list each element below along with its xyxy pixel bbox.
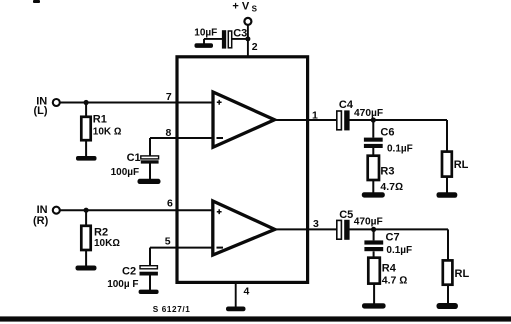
capacitor C4 plates bbox=[337, 110, 350, 130]
svg-text:4.7Ω: 4.7Ω bbox=[380, 181, 403, 193]
ground for C2 bbox=[139, 290, 159, 294]
svg-text:3: 3 bbox=[313, 218, 319, 230]
svg-text:+ V: + V bbox=[232, 0, 249, 12]
wire R1 lower stem bbox=[85, 140, 87, 157]
wire pin4 to ground bbox=[235, 282, 237, 307]
bottom border rule bbox=[0, 316, 511, 321]
wire pin6: IN(R) to + input bbox=[60, 209, 212, 211]
wire R4 lower stem bbox=[373, 284, 375, 304]
op-amp A2 plus sign bbox=[217, 209, 222, 214]
svg-text:C3: C3 bbox=[233, 27, 247, 39]
wire pin8: C1 to - input bbox=[150, 137, 212, 139]
wire pin5: C2 to - input bbox=[150, 247, 212, 249]
svg-text:10K Ω: 10K Ω bbox=[93, 126, 122, 137]
wire R2 upper stem bbox=[85, 210, 87, 226]
wire C6 to R3 stem bbox=[372, 148, 374, 156]
junction node C6 bbox=[371, 117, 376, 122]
wire R2 lower stem bbox=[85, 250, 87, 266]
svg-text:C2: C2 bbox=[122, 266, 136, 278]
svg-text:R2: R2 bbox=[94, 227, 108, 239]
svg-text:S: S bbox=[252, 5, 258, 14]
ground for R2 bbox=[76, 266, 97, 271]
junction node at R2 bbox=[84, 208, 89, 213]
svg-text:470µF: 470µF bbox=[354, 217, 383, 228]
wire R3 lower stem bbox=[372, 180, 374, 193]
svg-text:C1: C1 bbox=[127, 152, 141, 164]
svg-text:7: 7 bbox=[166, 91, 172, 103]
svg-text:(R): (R) bbox=[33, 215, 49, 227]
svg-text:8: 8 bbox=[166, 127, 172, 139]
capacitor C6 plates bbox=[364, 138, 383, 148]
resistor RL1 body bbox=[442, 152, 452, 177]
capacitor C5 plates bbox=[337, 220, 350, 240]
wire RL2 upper stem bbox=[447, 229, 449, 260]
resistor R1 body bbox=[81, 117, 90, 140]
svg-text:10KΩ: 10KΩ bbox=[94, 238, 120, 249]
ground for C3 bbox=[195, 43, 214, 48]
wire C2 lower stem bbox=[149, 275, 151, 290]
wire C3 to pin2 node bbox=[232, 38, 248, 40]
svg-text:0.1µF: 0.1µF bbox=[387, 144, 413, 155]
svg-text:100µ F: 100µ F bbox=[107, 279, 138, 290]
wire C3 left to ground bbox=[204, 39, 222, 44]
wire RL1 upper stem bbox=[446, 120, 448, 152]
svg-text:2: 2 bbox=[252, 41, 258, 53]
wire C7 upper stem bbox=[373, 229, 375, 240]
resistor RL2 body bbox=[443, 260, 453, 284]
resistor R2 body bbox=[81, 226, 90, 250]
svg-text:10µF: 10µF bbox=[194, 28, 217, 39]
svg-text:4.7 Ω: 4.7 Ω bbox=[382, 274, 408, 286]
wire C1 lower stem bbox=[149, 163, 151, 179]
op-amp A2 minus sign bbox=[217, 247, 224, 249]
terminal IN(L) bbox=[53, 99, 60, 106]
wire +Vs stem to pin2 bbox=[247, 25, 249, 56]
junction node at R1 bbox=[84, 100, 89, 105]
ground for pin4 bbox=[226, 307, 246, 312]
svg-text:C4: C4 bbox=[339, 99, 354, 111]
op-amp A2 (bottom) bbox=[213, 201, 275, 255]
op-amp A1 minus sign bbox=[217, 137, 224, 139]
svg-text:C6: C6 bbox=[380, 126, 394, 138]
wire node2: C5 to RL2 branch bbox=[349, 228, 448, 230]
svg-text:R4: R4 bbox=[382, 263, 397, 275]
wire R1 upper stem bbox=[85, 103, 87, 117]
svg-text:C7: C7 bbox=[386, 232, 400, 244]
svg-text:470µF: 470µF bbox=[354, 108, 383, 119]
capacitor C7 plates bbox=[364, 240, 383, 251]
wire C7 to R4 stem bbox=[373, 251, 375, 257]
svg-text:6: 6 bbox=[167, 197, 173, 209]
capacitor C1 plates bbox=[141, 156, 159, 164]
svg-text:R3: R3 bbox=[380, 166, 394, 178]
wire pin1 output to C4 bbox=[275, 119, 337, 121]
ground for R3 bbox=[362, 192, 385, 197]
capacitor C3 plates bbox=[222, 30, 232, 48]
wire C1 upper stem bbox=[149, 138, 151, 156]
svg-text:100µF: 100µF bbox=[111, 167, 140, 178]
terminal +Vs bbox=[244, 18, 251, 25]
ground for R1 bbox=[76, 156, 97, 161]
svg-text:C5: C5 bbox=[339, 209, 353, 221]
op-amp A1 (top) bbox=[213, 92, 275, 147]
svg-text:R1: R1 bbox=[93, 113, 107, 125]
ground for RL1 bbox=[437, 192, 458, 198]
ground for RL2 bbox=[437, 303, 458, 309]
svg-text:0.1µF: 0.1µF bbox=[386, 245, 412, 256]
ground for R4 bbox=[362, 303, 386, 308]
wire RL1 lower stem bbox=[446, 177, 448, 193]
wire RL2 lower stem bbox=[447, 285, 449, 304]
svg-text:(L): (L) bbox=[34, 105, 48, 117]
stray corner mark bbox=[33, 0, 40, 3]
resistor R4 body bbox=[368, 258, 380, 284]
svg-text:RL: RL bbox=[454, 159, 469, 171]
svg-text:5: 5 bbox=[165, 236, 171, 248]
junction node C7 bbox=[371, 227, 376, 232]
capacitor C2 plates bbox=[140, 266, 158, 276]
svg-text:1: 1 bbox=[312, 110, 318, 122]
IC outline U1 bbox=[177, 57, 308, 283]
svg-text:4: 4 bbox=[244, 286, 250, 298]
terminal IN(R) bbox=[53, 207, 60, 214]
svg-text:S 6127/1: S 6127/1 bbox=[153, 305, 191, 314]
ground for C1 bbox=[138, 179, 161, 184]
wire pin3 output to C5 bbox=[275, 228, 337, 230]
junction node pin2 bbox=[245, 36, 250, 41]
svg-text:RL: RL bbox=[455, 268, 470, 280]
wire C2 upper stem bbox=[149, 248, 151, 266]
wire pin7: IN(L) to + input bbox=[60, 102, 212, 104]
wire C6 upper stem bbox=[372, 120, 374, 138]
wire node1: C4 to RL1 branch bbox=[349, 119, 447, 121]
resistor R3 body bbox=[368, 156, 379, 180]
op-amp A1 plus sign bbox=[217, 100, 222, 105]
